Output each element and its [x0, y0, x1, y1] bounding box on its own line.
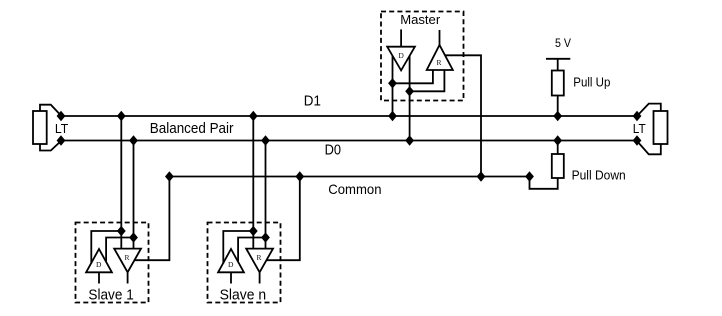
transistor slave1 driver D triangle [86, 249, 112, 272]
node slave-n D0 junction [261, 135, 270, 145]
wire master R input A tap [393, 70, 433, 83]
wire 5V to pull-up [557, 59, 559, 71]
svg-text:Master: Master [400, 12, 441, 27]
svg-text:Slave n: Slave n [220, 287, 267, 303]
op-amp slave1 receiver R triangle [114, 249, 141, 273]
node master D1 junction [388, 111, 397, 121]
Master dashed box [381, 12, 464, 101]
node slave1 D0 junction [129, 135, 138, 145]
wire master R common lead to Common [445, 55, 481, 176]
svg-text:R: R [124, 253, 129, 262]
wire pull-down to Common jog [530, 177, 558, 189]
Slave n dashed box [208, 223, 281, 303]
svg-text:LT: LT [633, 121, 646, 136]
node slave1 tap B junction [129, 232, 138, 242]
node slave-n tap A junction [249, 226, 258, 236]
op-amp slave-n receiver R triangle [246, 249, 273, 273]
svg-text:D: D [96, 260, 102, 269]
node master tap A junction [388, 78, 397, 88]
node D1 left junction [57, 111, 66, 121]
wire left LT top lead [40, 105, 61, 116]
wire D0 bus line [61, 140, 637, 142]
svg-text:D1: D1 [304, 93, 321, 109]
wire slave1 D tap B [106, 238, 133, 262]
wire slave-n line B from D0 [265, 141, 267, 249]
svg-text:LT: LT [55, 121, 68, 136]
node master Common junction [477, 171, 486, 181]
node slave-n Common junction [295, 171, 304, 181]
wire left LT bottom lead [40, 141, 61, 151]
transistor master driver D triangle [387, 47, 415, 71]
Slave 1 dashed box [76, 223, 149, 303]
resistor LT right (line terminator) [654, 111, 668, 144]
wire 5V rail tick [546, 58, 570, 60]
node master D0 junction [405, 135, 414, 145]
resistor LT left (line terminator) [33, 111, 47, 144]
wire right LT bottom lead [637, 141, 661, 154]
node D0 right junction [633, 135, 642, 145]
node slave-n tap B junction [261, 232, 270, 242]
wire right LT top lead [637, 104, 661, 116]
wire pull-up to D1 [557, 96, 559, 117]
wire master R input B tap [410, 70, 445, 91]
wire slave-n D tap B [238, 238, 265, 262]
svg-text:R: R [436, 58, 441, 67]
wire master D output A to D1 [392, 56, 394, 116]
svg-text:5 V: 5 V [555, 38, 571, 50]
node D1 right junction [633, 111, 642, 121]
wire slave1 D tap A [91, 231, 121, 264]
wire Common bus line [169, 176, 529, 178]
wire master D input stub [400, 29, 402, 46]
wire master D output B to D0 [409, 56, 411, 141]
wire slave-n D input stub [230, 272, 232, 283]
node slave1 Common junction [165, 171, 174, 181]
node master tap B junction [405, 86, 414, 96]
svg-text:Pull Up: Pull Up [573, 74, 610, 89]
resistor Pull Down [552, 154, 564, 178]
resistor Pull Up [552, 71, 564, 96]
transistor slave-n driver D triangle [218, 249, 244, 272]
svg-text:Pull Down: Pull Down [572, 168, 626, 182]
svg-text:D: D [398, 51, 404, 60]
wire slave-n common lead to Common [266, 177, 299, 261]
wire slave-n R output stub [259, 272, 261, 283]
wire slave1 line A from D1 [120, 116, 122, 249]
wire slave-n line A from D1 [252, 116, 254, 249]
node slave1 D1 junction [117, 111, 126, 121]
wire slave-n D tap A [223, 231, 253, 264]
node pull-up D1 junction [553, 111, 562, 121]
svg-text:Slave 1: Slave 1 [88, 287, 133, 303]
svg-text:D: D [228, 260, 234, 269]
op-amp master receiver R triangle [427, 45, 453, 70]
wire master R output stub [439, 30, 441, 45]
svg-text:D0: D0 [325, 142, 341, 158]
wire slave1 line B from D0 [133, 141, 135, 249]
svg-text:R: R [256, 253, 261, 262]
node slave1 tap A junction [117, 226, 126, 236]
node pull-down D0 junction [553, 135, 562, 145]
node D0 left junction [57, 135, 66, 145]
wire D1 bus line [61, 115, 637, 117]
wire slave1 common lead to Common [134, 177, 169, 261]
node pull-down Common junction [525, 171, 534, 181]
wire slave1 R output stub [127, 272, 129, 283]
node slave-n D1 junction [249, 111, 258, 121]
wire slave1 D input stub [98, 272, 100, 283]
wire D0 to pull-down [557, 141, 559, 155]
svg-text:Balanced Pair: Balanced Pair [150, 121, 234, 137]
svg-text:Common: Common [328, 182, 381, 197]
